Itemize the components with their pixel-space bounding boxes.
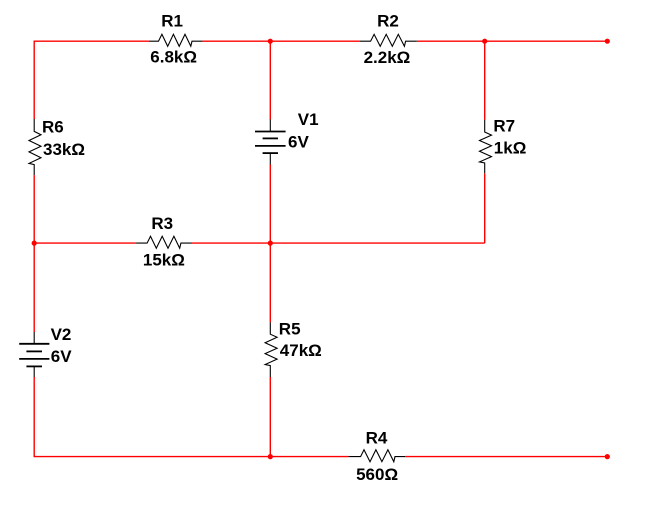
svg-text:R5: R5: [279, 319, 301, 338]
wire right branch upper segment: [484, 41, 486, 120]
node terminal bottom-right end: [605, 454, 610, 459]
resistor R1: [149, 34, 203, 46]
wire left branch middle segment: [33, 175, 35, 332]
wire top rail right segment: [417, 40, 608, 42]
svg-text:47kΩ: 47kΩ: [280, 341, 322, 360]
node junction middle-center: [268, 241, 273, 246]
resistor R4: [349, 450, 406, 462]
resistor R5: [265, 322, 277, 377]
wire center branch upper segment: [269, 41, 271, 119]
svg-text:2.2kΩ: 2.2kΩ: [364, 48, 411, 67]
svg-text:560Ω: 560Ω: [356, 465, 398, 484]
resistor R3: [136, 236, 192, 248]
svg-text:R2: R2: [377, 12, 399, 31]
wire left branch upper segment: [33, 41, 35, 120]
wire top rail middle segment: [202, 40, 359, 42]
battery V1: [255, 120, 286, 165]
wire left branch lower segment: [33, 377, 35, 457]
svg-text:V1: V1: [298, 110, 319, 129]
node junction bottom-center: [268, 454, 273, 459]
svg-text:R4: R4: [366, 428, 388, 447]
resistor R6: [29, 119, 41, 175]
svg-text:15kΩ: 15kΩ: [143, 251, 185, 270]
svg-text:33kΩ: 33kΩ: [43, 140, 85, 159]
node junction top-right: [482, 39, 487, 44]
svg-text:1kΩ: 1kΩ: [494, 138, 527, 157]
resistor R7: [480, 120, 492, 173]
svg-text:R3: R3: [151, 214, 173, 233]
wire middle rail right segment: [192, 242, 485, 244]
wire center branch middle segment: [269, 165, 271, 323]
wire middle rail left segment: [34, 242, 136, 244]
node terminal top-right end: [605, 39, 610, 44]
node junction middle-left: [32, 241, 37, 246]
wire bottom rail left segment: [34, 456, 348, 458]
wire right branch lower segment: [484, 173, 486, 243]
svg-text:6V: 6V: [288, 132, 309, 151]
resistor R2: [360, 34, 417, 46]
wire top rail left segment: [34, 40, 149, 42]
battery V2: [19, 332, 49, 377]
svg-text:R1: R1: [161, 11, 183, 30]
svg-text:V2: V2: [51, 325, 72, 344]
node junction top-center: [268, 39, 273, 44]
svg-text:R7: R7: [493, 116, 515, 135]
svg-text:6V: 6V: [51, 347, 72, 366]
wire bottom rail right segment: [405, 456, 607, 458]
svg-text:R6: R6: [42, 117, 64, 136]
svg-text:6.8kΩ: 6.8kΩ: [150, 48, 197, 67]
wire center branch lower segment: [269, 377, 271, 457]
